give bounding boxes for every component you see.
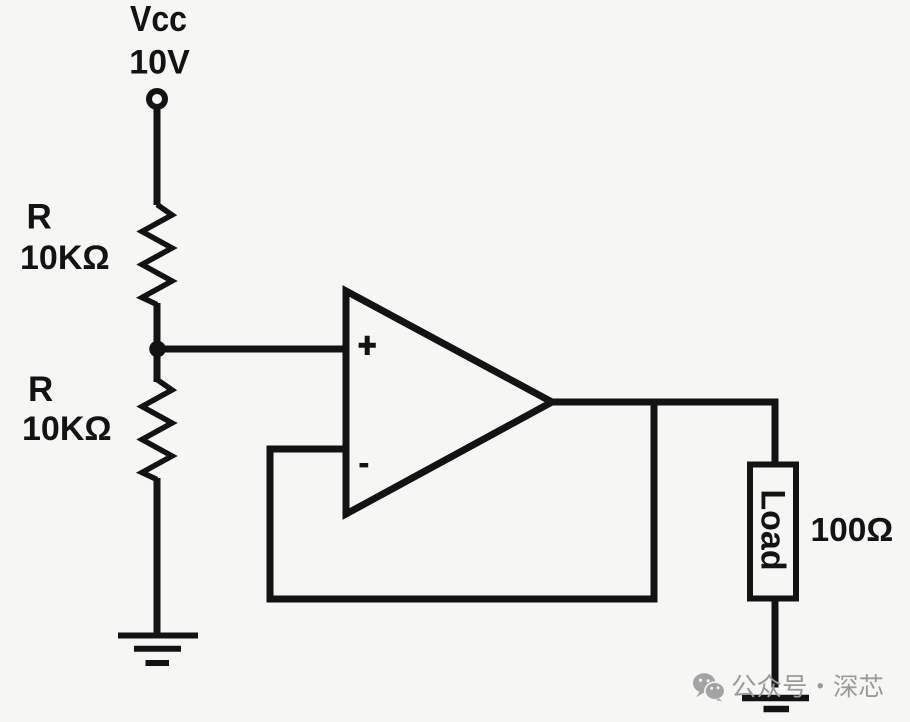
svg-text:10V: 10V [129, 44, 190, 82]
svg-text:10KΩ: 10KΩ [20, 239, 110, 277]
svg-text:Load: Load [753, 489, 791, 570]
svg-text:10KΩ: 10KΩ [22, 410, 112, 448]
svg-text:100Ω: 100Ω [811, 512, 894, 549]
svg-text:Vcc: Vcc [130, 0, 187, 39]
svg-text:R: R [28, 370, 53, 409]
svg-text:R: R [27, 198, 52, 237]
